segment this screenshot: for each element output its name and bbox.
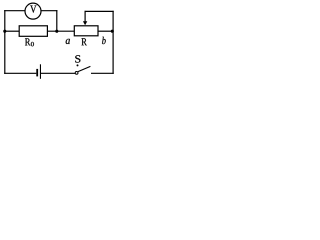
wire middle row left: [5, 30, 19, 32]
resistor R0 box: [19, 26, 47, 37]
wire bottom left: [4, 72, 36, 74]
label S: [75, 55, 80, 62]
node junction dot voltmeter tap: [55, 30, 58, 33]
switch S handle knob: [77, 64, 79, 66]
wire switch to bottom-right: [91, 72, 114, 74]
wire battery to switch: [41, 72, 75, 74]
label R0 subscript 0: [31, 42, 34, 46]
rheostat slider vertical: [84, 11, 86, 22]
wire voltmeter right stub: [41, 10, 58, 12]
wire middle row center: [47, 30, 74, 32]
node junction dot left: [3, 30, 6, 33]
voltmeter U1: [25, 3, 41, 19]
label R0 letter R: [25, 38, 30, 45]
voltmeter label V: [30, 5, 36, 12]
battery BT1 long thin plate: [40, 64, 41, 79]
wire middle row right: [98, 30, 113, 32]
label a: [66, 39, 70, 44]
rheostat slider arrowhead: [83, 21, 87, 25]
wire left vertical: [4, 10, 6, 74]
label R: [82, 38, 87, 45]
node junction dot right: [111, 30, 114, 33]
wire right vertical: [112, 11, 114, 74]
wire top-left horizontal: [4, 10, 25, 12]
switch S pivot circle: [75, 72, 78, 75]
wire voltmeter branch vertical: [56, 10, 58, 31]
rheostat R box: [74, 26, 98, 36]
battery BT1 short thick plate: [36, 69, 38, 77]
wire top-right horizontal: [85, 10, 114, 12]
label b: [102, 37, 106, 44]
switch S lever: [78, 66, 90, 71]
